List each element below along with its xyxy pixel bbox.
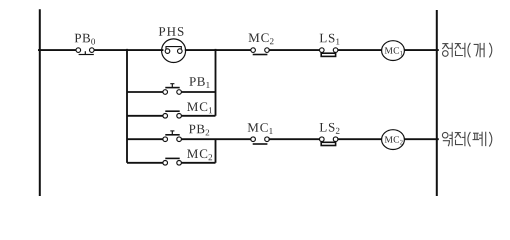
wire row3 left [127,115,163,117]
wire row5 right [181,162,215,164]
label MC2 row5 [187,149,212,160]
limit switch LS2 [320,137,338,146]
wire row4: coil MC2 to right rail [404,138,438,140]
label LS1 [320,34,340,45]
left rail [39,9,41,196]
contact MC2 a-contact row5 [163,158,182,165]
node junction vertical right lower [215,139,217,163]
wire row1: PHS to MC2 contact [185,49,251,51]
label PB0 [75,34,95,45]
wire row4: PB2 to MC1 contact [181,138,251,140]
label jeongjeon(gae) [442,43,492,58]
pushbutton PB2 (NO) [163,131,182,142]
wire row3 right [181,115,215,117]
wire row1: MC2 to LS1 [269,49,320,51]
label PB2 [189,125,209,136]
wire row1: LS1 to coil MC1 [338,49,382,51]
label MC2 row1 [249,33,274,44]
label PB1 [189,77,209,88]
wire row5 left [127,162,163,164]
coil MC1 [382,41,405,61]
right rail [436,10,438,196]
wire row2 left [127,91,163,93]
pressure switch PHS [162,39,186,63]
label yeokjeon(pye) [442,132,491,147]
pushbutton PB1 (NO) [163,84,182,95]
label LS2 [320,123,340,134]
node junction vertical right upper [215,49,217,116]
label PHS [159,27,184,36]
label MC1 row4 [248,123,273,134]
wire row1: PB0 to PHS [94,49,163,51]
contact MC1 a-contact row3 [163,111,182,118]
label MC1 row3 [187,102,212,113]
wire row1: rail to PB0 [38,49,76,51]
limit switch LS1 [320,48,338,57]
coil MC2 [382,130,405,150]
wire row4: LS2 to coil MC2 [338,138,382,140]
wire row4 left [127,138,163,140]
node junction vertical left [126,49,128,163]
contact MC2 b-contact row1 [251,48,270,55]
pushbutton PB0 (NC) [76,48,94,55]
wire row4: MC1 to LS2 [269,138,320,140]
contact MC1 b-contact row4 [251,137,270,144]
wire row1: coil MC1 to right rail [404,49,438,51]
wire row2 right [181,91,215,93]
